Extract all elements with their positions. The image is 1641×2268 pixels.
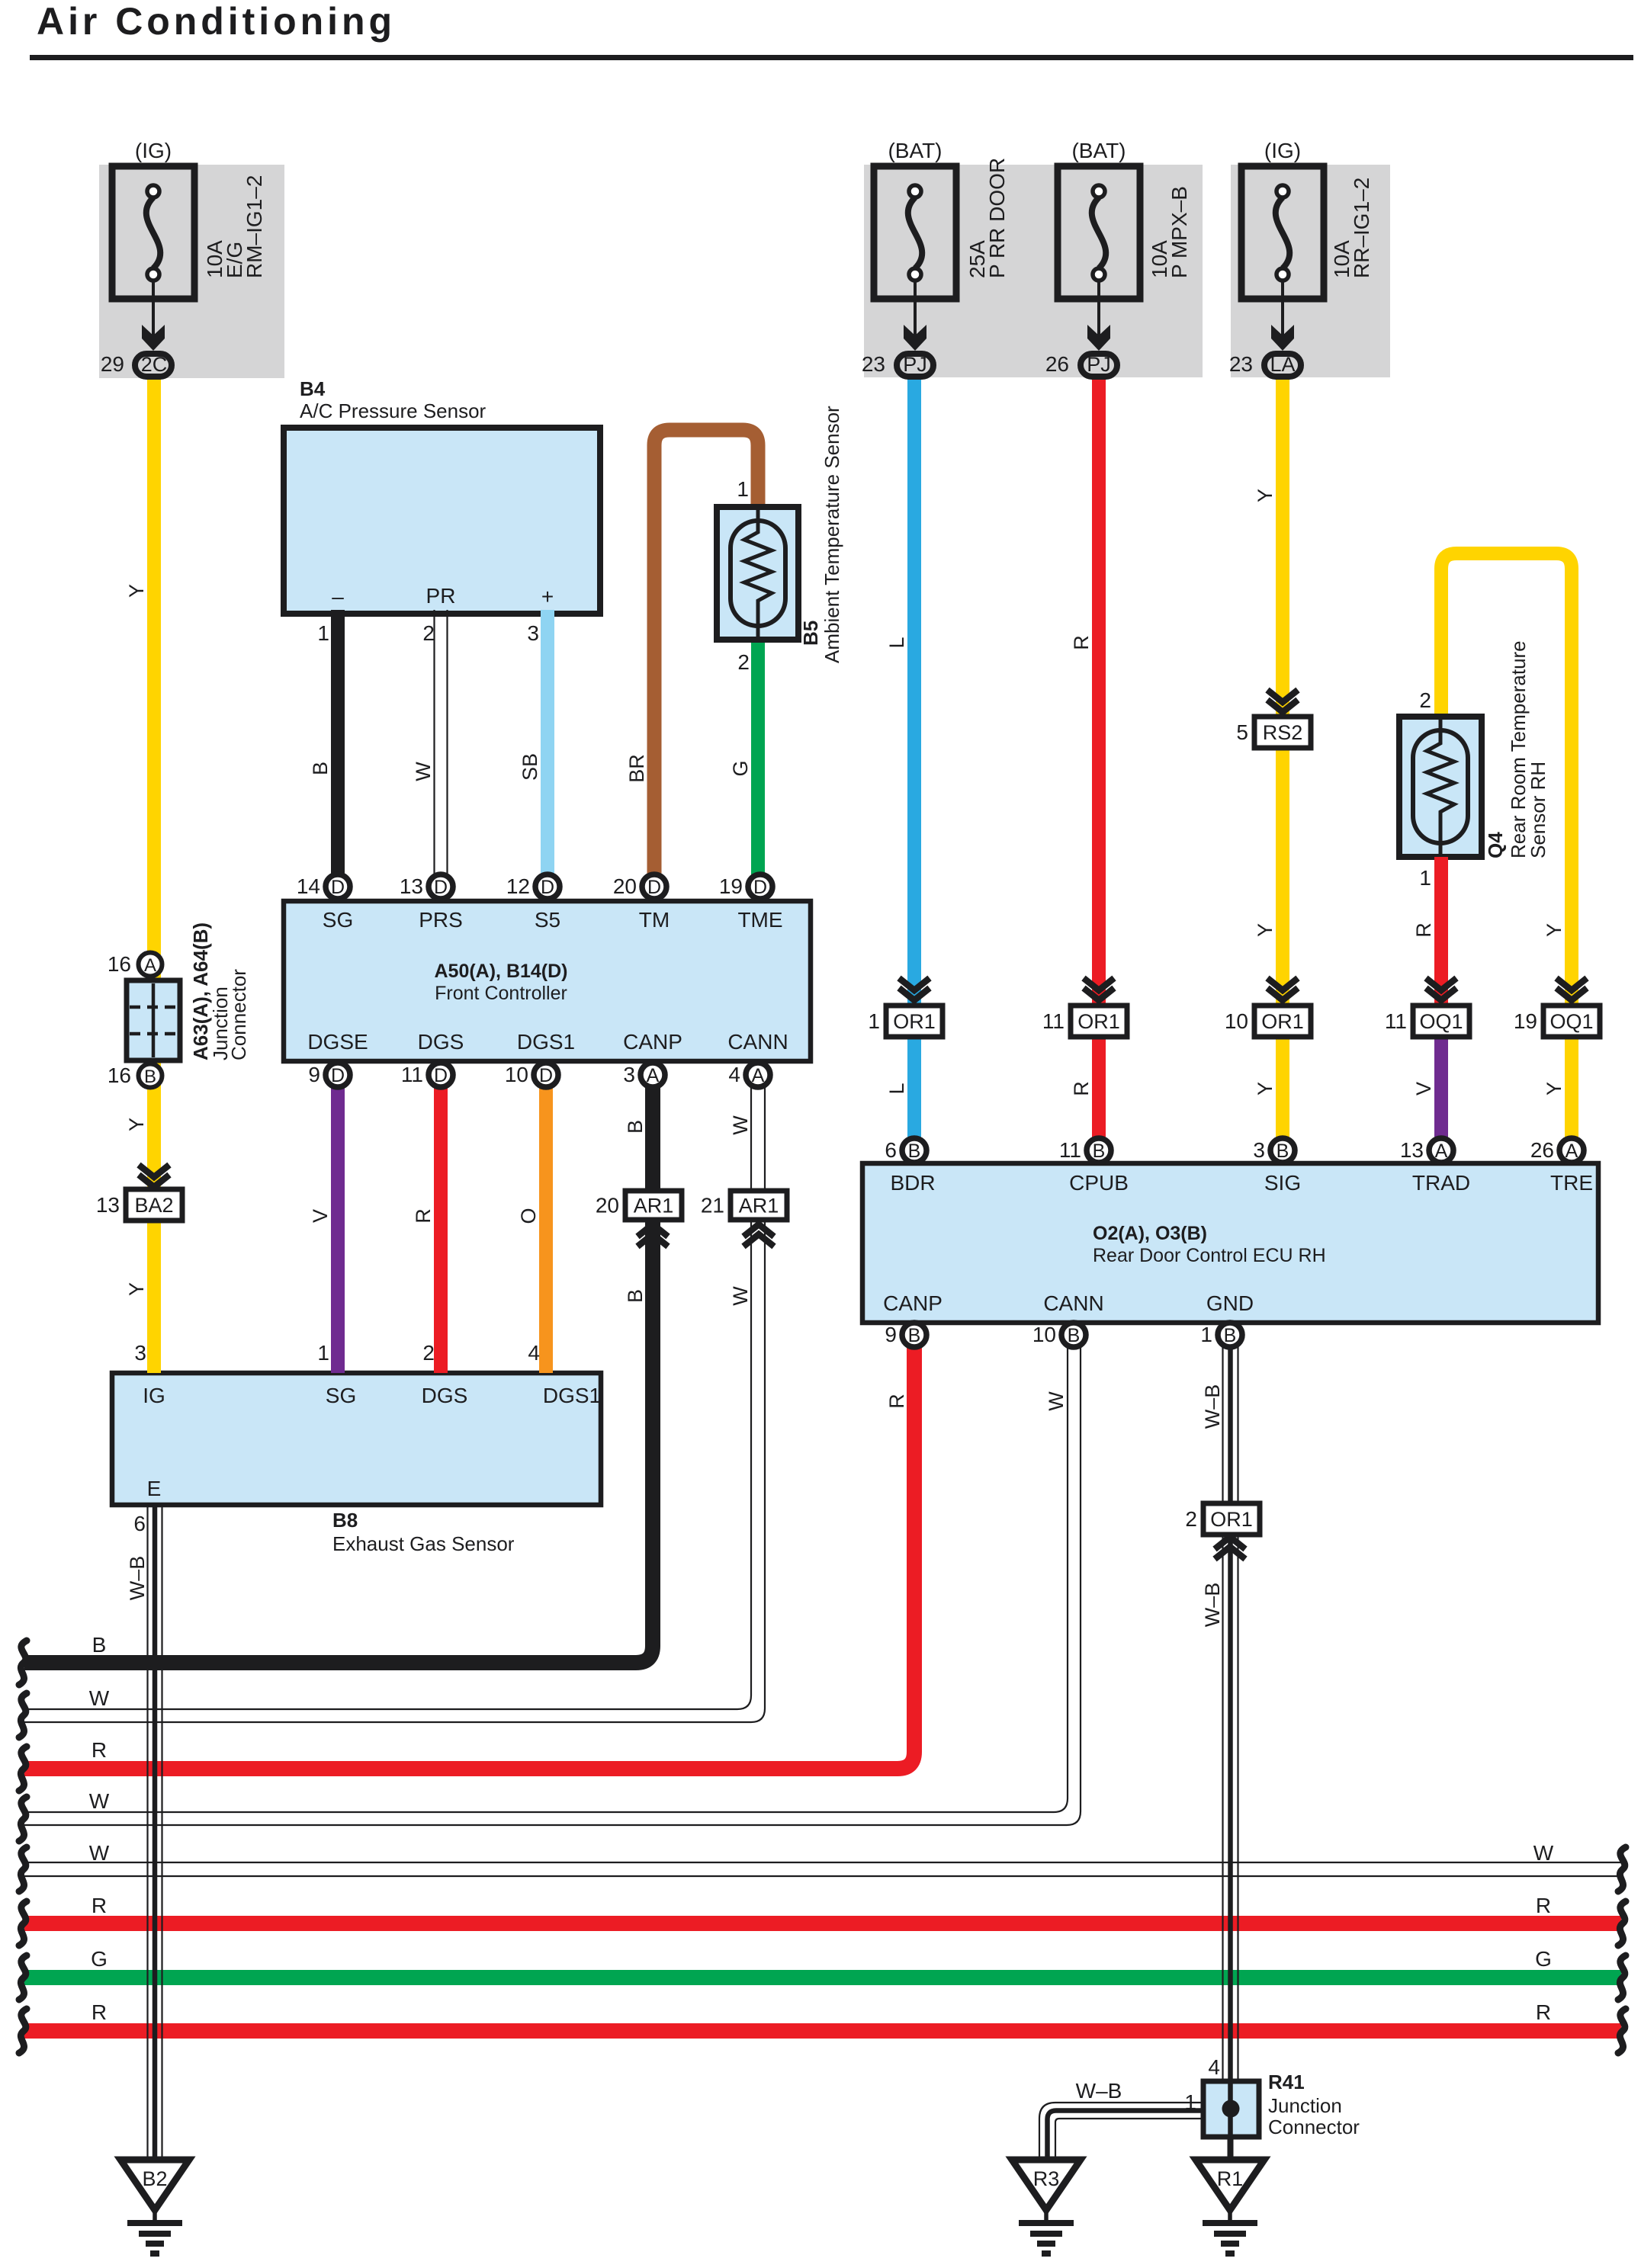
svg-text:R: R — [1412, 922, 1435, 938]
svg-text:D: D — [434, 1065, 448, 1086]
svg-text:13: 13 — [400, 874, 423, 898]
svg-text:1: 1 — [868, 1009, 880, 1033]
svg-text:DGS: DGS — [422, 1384, 468, 1407]
svg-text:21: 21 — [701, 1194, 724, 1217]
svg-text:G: G — [729, 760, 752, 776]
svg-text:B: B — [309, 762, 332, 775]
svg-text:11: 11 — [1042, 1009, 1065, 1033]
svg-text:5: 5 — [1236, 720, 1248, 744]
svg-text:BA2: BA2 — [134, 1194, 173, 1217]
svg-text:SIG: SIG — [1264, 1171, 1301, 1195]
svg-text:2: 2 — [1185, 1507, 1197, 1531]
svg-text:CANN: CANN — [1043, 1291, 1103, 1315]
svg-text:R1: R1 — [1217, 2167, 1244, 2190]
svg-text:A/C Pressure Sensor: A/C Pressure Sensor — [300, 399, 487, 422]
svg-text:Y: Y — [1254, 489, 1277, 502]
svg-text:B: B — [908, 1325, 921, 1346]
svg-text:20: 20 — [613, 874, 637, 898]
svg-text:B: B — [1068, 1325, 1081, 1346]
svg-text:29: 29 — [101, 352, 124, 376]
svg-text:10: 10 — [1032, 1323, 1056, 1346]
svg-text:PJ: PJ — [1087, 353, 1111, 376]
svg-text:R: R — [92, 1894, 107, 1917]
svg-text:W–B: W–B — [1201, 1583, 1224, 1628]
svg-text:W–B: W–B — [1076, 2079, 1122, 2103]
svg-text:R: R — [412, 1208, 435, 1224]
svg-text:(IG): (IG) — [135, 139, 172, 162]
svg-text:B4: B4 — [300, 377, 326, 400]
svg-text:Sensor RH: Sensor RH — [1527, 762, 1549, 858]
svg-text:W: W — [412, 762, 435, 781]
svg-text:D: D — [539, 1065, 553, 1086]
svg-text:Y: Y — [125, 584, 148, 598]
svg-text:OR1: OR1 — [1261, 1010, 1304, 1033]
svg-text:3: 3 — [623, 1063, 635, 1086]
svg-text:LA: LA — [1270, 353, 1295, 376]
svg-text:Exhaust Gas Sensor: Exhaust Gas Sensor — [332, 1532, 515, 1555]
svg-text:L: L — [885, 637, 908, 648]
svg-text:6: 6 — [885, 1138, 897, 1162]
svg-text:GND: GND — [1206, 1291, 1254, 1315]
svg-text:R41: R41 — [1268, 2071, 1305, 2093]
svg-text:A50(A), B14(D): A50(A), B14(D) — [434, 961, 567, 982]
svg-text:B: B — [624, 1120, 647, 1134]
svg-text:16: 16 — [108, 1063, 131, 1087]
svg-text:R: R — [1536, 2000, 1551, 2024]
svg-text:CANP: CANP — [623, 1030, 682, 1054]
svg-text:Y: Y — [1254, 923, 1277, 937]
svg-text:11: 11 — [401, 1063, 423, 1086]
svg-text:W: W — [1533, 1841, 1554, 1865]
svg-text:TRAD: TRAD — [1412, 1171, 1470, 1195]
svg-text:19: 19 — [1514, 1009, 1537, 1033]
svg-text:DGS1: DGS1 — [517, 1030, 575, 1054]
svg-text:B8: B8 — [332, 1509, 358, 1532]
svg-text:OQ1: OQ1 — [1419, 1010, 1463, 1033]
svg-text:R: R — [1536, 1894, 1551, 1917]
svg-text:R3: R3 — [1033, 2167, 1060, 2190]
svg-text:V: V — [309, 1209, 332, 1223]
svg-text:B: B — [144, 1067, 156, 1087]
svg-text:Ambient Temperature Sensor: Ambient Temperature Sensor — [820, 406, 843, 663]
svg-text:A: A — [1435, 1140, 1448, 1162]
svg-text:TRE: TRE — [1550, 1171, 1593, 1195]
svg-text:CANP: CANP — [883, 1291, 943, 1315]
svg-text:A: A — [647, 1065, 660, 1086]
svg-text:B: B — [1277, 1140, 1289, 1162]
svg-text:A: A — [144, 955, 156, 976]
svg-text:Connector: Connector — [227, 969, 250, 1060]
svg-text:DGS: DGS — [418, 1030, 464, 1054]
svg-text:TM: TM — [639, 908, 670, 932]
svg-text:G: G — [91, 1947, 108, 1971]
svg-text:19: 19 — [719, 874, 743, 898]
svg-text:2: 2 — [422, 621, 435, 645]
svg-text:B: B — [92, 1633, 107, 1657]
svg-text:RR–IG1–2: RR–IG1–2 — [1350, 178, 1373, 278]
svg-text:DGS1: DGS1 — [543, 1384, 601, 1407]
svg-text:IG: IG — [143, 1384, 165, 1407]
svg-text:PRS: PRS — [419, 908, 463, 932]
svg-text:Front Controller: Front Controller — [435, 983, 567, 1004]
svg-text:Rear Door Control ECU RH: Rear Door Control ECU RH — [1093, 1245, 1326, 1266]
svg-text:9: 9 — [308, 1063, 320, 1086]
svg-text:O: O — [517, 1208, 540, 1224]
svg-text:(IG): (IG) — [1264, 139, 1301, 162]
svg-text:4: 4 — [728, 1063, 740, 1086]
svg-text:13: 13 — [1400, 1138, 1424, 1162]
svg-text:PJ: PJ — [903, 353, 927, 376]
svg-text:G: G — [1535, 1947, 1552, 1971]
svg-text:Y: Y — [1543, 923, 1566, 937]
svg-text:12: 12 — [506, 874, 530, 898]
svg-text:2C: 2C — [141, 353, 168, 376]
svg-text:Q4: Q4 — [1484, 832, 1507, 858]
svg-text:(BAT): (BAT) — [888, 139, 942, 162]
svg-text:(BAT): (BAT) — [1071, 139, 1126, 162]
svg-text:CPUB: CPUB — [1069, 1171, 1129, 1195]
svg-text:1: 1 — [1184, 2090, 1196, 2114]
svg-text:B: B — [624, 1289, 647, 1303]
svg-text:1: 1 — [1419, 866, 1431, 890]
svg-text:1: 1 — [317, 1341, 329, 1365]
svg-text:OR1: OR1 — [1077, 1010, 1120, 1033]
svg-text:Y: Y — [1543, 1082, 1566, 1096]
svg-text:D: D — [434, 877, 448, 898]
svg-text:SG: SG — [326, 1384, 356, 1407]
svg-text:14: 14 — [297, 874, 320, 898]
svg-text:OR1: OR1 — [893, 1010, 936, 1033]
svg-text:20: 20 — [596, 1194, 619, 1217]
svg-text:R: R — [885, 1394, 908, 1409]
svg-text:P MPX–B: P MPX–B — [1167, 186, 1191, 278]
svg-text:16: 16 — [108, 952, 131, 976]
svg-text:W: W — [729, 1286, 752, 1306]
svg-text:A: A — [752, 1065, 765, 1086]
svg-text:R: R — [92, 1738, 107, 1762]
svg-text:Connector: Connector — [1268, 2116, 1360, 2138]
svg-text:2: 2 — [1419, 688, 1431, 712]
svg-text:W: W — [89, 1841, 110, 1865]
svg-text:B2: B2 — [142, 2167, 167, 2190]
svg-text:D: D — [753, 877, 767, 898]
svg-text:B: B — [1093, 1140, 1106, 1162]
svg-text:1: 1 — [317, 621, 329, 645]
svg-text:B: B — [908, 1140, 921, 1162]
svg-text:AR1: AR1 — [739, 1195, 779, 1217]
svg-text:SB: SB — [519, 753, 541, 781]
svg-text:RS2: RS2 — [1263, 721, 1303, 744]
svg-text:TME: TME — [737, 908, 782, 932]
svg-text:BR: BR — [625, 754, 648, 783]
svg-text:D: D — [331, 877, 345, 898]
svg-text:W: W — [1045, 1391, 1068, 1411]
svg-text:P RR DOOR: P RR DOOR — [985, 158, 1009, 278]
svg-text:DGSE: DGSE — [307, 1030, 368, 1054]
svg-text:W–B: W–B — [1201, 1384, 1224, 1429]
svg-text:SG: SG — [323, 908, 353, 932]
svg-text:B: B — [1224, 1325, 1237, 1346]
svg-text:2: 2 — [737, 650, 750, 674]
svg-text:D: D — [541, 877, 554, 898]
svg-text:10: 10 — [1225, 1009, 1248, 1033]
svg-text:2: 2 — [422, 1341, 435, 1365]
svg-text:Junction: Junction — [1268, 2094, 1342, 2117]
svg-text:10: 10 — [505, 1063, 528, 1086]
svg-text:11: 11 — [1059, 1138, 1081, 1162]
svg-text:A: A — [1566, 1140, 1578, 1162]
svg-text:S5: S5 — [535, 908, 560, 932]
svg-text:9: 9 — [885, 1323, 897, 1346]
svg-text:Y: Y — [1254, 1082, 1277, 1096]
svg-text:V: V — [1412, 1082, 1435, 1096]
svg-text:23: 23 — [1229, 352, 1253, 376]
svg-text:–: – — [332, 585, 344, 608]
svg-text:AR1: AR1 — [634, 1195, 674, 1217]
svg-text:+: + — [541, 585, 554, 608]
svg-text:1: 1 — [1200, 1323, 1212, 1346]
svg-text:6: 6 — [133, 1512, 146, 1535]
svg-text:4: 4 — [1208, 2055, 1220, 2079]
svg-text:W–B: W–B — [126, 1556, 149, 1601]
svg-text:E: E — [147, 1477, 162, 1500]
svg-text:BDR: BDR — [890, 1171, 935, 1195]
svg-text:W: W — [89, 1686, 110, 1710]
svg-text:1: 1 — [737, 477, 749, 501]
svg-text:OR1: OR1 — [1210, 1508, 1253, 1531]
svg-text:3: 3 — [1253, 1138, 1265, 1162]
svg-text:R: R — [92, 2000, 107, 2024]
svg-text:D: D — [331, 1065, 345, 1086]
svg-text:W: W — [729, 1115, 752, 1135]
svg-text:OQ1: OQ1 — [1549, 1010, 1593, 1033]
svg-text:3: 3 — [527, 621, 539, 645]
svg-text:Y: Y — [125, 1118, 148, 1131]
svg-text:D: D — [647, 877, 661, 898]
svg-text:PR: PR — [426, 584, 456, 608]
svg-text:B5: B5 — [799, 621, 822, 646]
svg-text:R: R — [1070, 1081, 1093, 1096]
svg-text:O2(A), O3(B): O2(A), O3(B) — [1093, 1223, 1207, 1244]
svg-text:CANN: CANN — [727, 1030, 788, 1054]
svg-text:W: W — [89, 1789, 110, 1813]
svg-text:Y: Y — [125, 1282, 148, 1296]
svg-text:23: 23 — [862, 352, 885, 376]
svg-text:4: 4 — [528, 1341, 540, 1365]
svg-text:R: R — [1070, 635, 1093, 650]
svg-text:3: 3 — [134, 1341, 146, 1365]
svg-text:11: 11 — [1385, 1009, 1407, 1033]
svg-text:L: L — [885, 1083, 908, 1094]
svg-text:13: 13 — [96, 1193, 120, 1217]
svg-text:26: 26 — [1530, 1138, 1554, 1162]
svg-text:RM–IG1–2: RM–IG1–2 — [242, 175, 266, 278]
svg-text:26: 26 — [1045, 352, 1069, 376]
